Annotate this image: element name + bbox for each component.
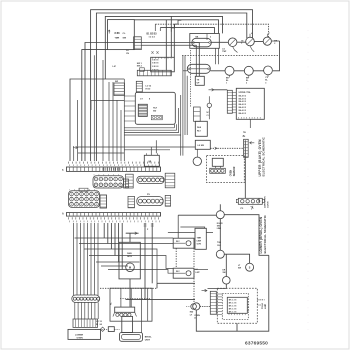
label — [147, 194, 150, 196]
oven cavity box — [190, 34, 220, 49]
wire bundle left — [74, 55, 125, 161]
label A — [62, 213, 64, 216]
label marks — [196, 269, 201, 274]
heater H5 — [244, 66, 253, 75]
switch S2 — [216, 250, 224, 258]
wire — [211, 41, 279, 42]
label P2 — [243, 136, 246, 138]
junction box — [68, 329, 101, 339]
svg-text:OVEN: OVEN — [231, 169, 233, 176]
svg-text:TMR: TMR — [115, 37, 120, 39]
wire stubs relay — [124, 96, 135, 121]
arrow — [202, 289, 208, 292]
svg-text:TMR: TMR — [197, 238, 202, 240]
pin strip — [126, 174, 134, 188]
wire — [151, 140, 156, 155]
svg-text:8 8 8 8: 8 8 8 8 — [152, 59, 159, 61]
arrow marker — [73, 146, 78, 149]
heater H6 — [264, 66, 273, 75]
connector strip P2 — [244, 139, 249, 157]
label rotated sensor — [231, 166, 237, 176]
label block dark — [100, 321, 103, 326]
lower oven box — [110, 288, 152, 321]
wire — [249, 119, 251, 128]
svg-text:FAN: FAN — [127, 252, 132, 255]
label LO — [222, 49, 227, 54]
svg-text:OVN: OVN — [197, 244, 202, 246]
wire dashed drop — [189, 50, 191, 107]
label — [243, 132, 246, 137]
svg-text:N 1: N 1 — [207, 112, 210, 114]
svg-text:DLB: DLB — [197, 127, 202, 129]
wire stair 7 — [126, 232, 139, 234]
label — [226, 77, 229, 84]
label light — [190, 312, 194, 317]
svg-text:LWR OVEN: LWR OVEN — [265, 196, 267, 208]
connector strip P4 — [210, 291, 216, 314]
wire left feed B — [82, 50, 108, 161]
label small — [207, 112, 210, 117]
pin strip 3 — [128, 196, 135, 207]
relay K1 — [173, 238, 194, 248]
switch S4 — [223, 277, 231, 285]
wire stair 5 — [118, 223, 120, 262]
wire top feed L1 — [91, 10, 253, 161]
wire — [219, 204, 221, 210]
knot marks — [152, 52, 159, 54]
wire risers — [174, 56, 187, 156]
svg-text:RLY: RLY — [197, 131, 201, 133]
label — [126, 49, 129, 55]
svg-text:BA 4 8 2: BA 4 8 2 — [239, 100, 246, 103]
wire top feed inner — [160, 28, 214, 34]
wire long — [168, 231, 195, 233]
wire dashed 3 — [100, 287, 157, 289]
svg-text:SW: SW — [223, 272, 226, 274]
wire stair L7 — [108, 270, 173, 274]
svg-text:SW: SW — [238, 268, 241, 270]
svg-text:1 2 3 4: 1 2 3 4 — [149, 35, 156, 38]
label — [265, 77, 268, 84]
wire stair L2 — [79, 243, 173, 245]
svg-text:BK 1 2 8: BK 1 2 8 — [229, 300, 236, 302]
pilot lamp — [207, 96, 211, 119]
wire drop — [155, 24, 160, 31]
wire vertical drop 2 — [170, 16, 172, 57]
label L2 — [96, 321, 99, 326]
control outline — [217, 288, 257, 323]
wire — [129, 233, 131, 242]
wire dashed — [175, 248, 177, 268]
title upper schematic — [258, 136, 266, 176]
wire stair L1 — [75, 237, 174, 239]
svg-text:SW: SW — [115, 81, 118, 83]
terminal strip TB2 — [67, 213, 161, 217]
svg-text:BA 4 8 2: BA 4 8 2 — [239, 106, 246, 109]
wire — [141, 288, 143, 332]
wire stair 3 — [110, 223, 112, 249]
arrow — [209, 89, 215, 92]
label — [246, 77, 249, 84]
wire right edge — [273, 41, 280, 71]
svg-text:2: 2 — [274, 43, 275, 45]
wire left feed A — [85, 43, 199, 162]
heater H1 — [228, 38, 237, 53]
svg-text:BK 1 2 8: BK 1 2 8 — [229, 303, 236, 305]
svg-text:UPPER CTRL: UPPER CTRL — [239, 92, 252, 94]
wire stair L5 — [96, 261, 140, 263]
connector grid — [134, 37, 142, 50]
svg-text:3: 3 — [265, 82, 266, 84]
svg-text:LWR: LWR — [217, 228, 222, 230]
label — [62, 168, 64, 171]
wire jog — [91, 101, 124, 111]
wire left feed C — [70, 79, 124, 161]
wire — [225, 254, 227, 276]
switch bank — [151, 57, 175, 72]
connector plug P6 — [69, 188, 100, 207]
svg-text:1: 1 — [241, 43, 242, 45]
latch box — [212, 158, 223, 168]
label element — [145, 337, 152, 342]
wire long dashed — [182, 55, 280, 57]
label block — [137, 63, 145, 72]
wire stair L4 — [89, 256, 173, 269]
wire — [208, 284, 227, 288]
pin header — [136, 81, 142, 92]
wire jog 2 — [78, 152, 124, 154]
clock U1 — [108, 20, 135, 50]
wire vertical drop — [165, 20, 167, 71]
wire stair L8 — [194, 269, 208, 271]
svg-text:BA 4 8 2: BA 4 8 2 — [239, 109, 246, 112]
indicator light DS1 — [186, 304, 196, 310]
switch S1 — [178, 211, 224, 219]
heater H3 — [263, 33, 271, 46]
wire — [147, 288, 149, 321]
wire mid drop 2 — [151, 223, 153, 283]
wire — [183, 70, 187, 72]
wire bundle — [75, 302, 98, 319]
wire labels row — [69, 217, 160, 222]
terminal strip TB4 — [137, 70, 171, 76]
wire bundle lower — [74, 223, 99, 295]
wire long mid 2 — [124, 149, 170, 151]
wire — [224, 254, 249, 263]
wire — [214, 89, 227, 91]
wire drop K1 — [177, 215, 179, 238]
terminal block TB3 — [210, 168, 226, 173]
interlock block — [114, 81, 125, 96]
wire jog timer — [180, 227, 204, 228]
svg-text:8 8 8 8: 8 8 8 8 — [152, 63, 159, 65]
fuse F1 — [144, 224, 154, 231]
svg-text:1: 1 — [226, 83, 227, 85]
label fan — [127, 252, 132, 258]
thermostat box — [195, 76, 204, 85]
connector block P7 — [100, 195, 107, 208]
connector pill P10 — [72, 295, 100, 302]
motor M1 — [126, 263, 135, 272]
oven control board U2 — [227, 297, 249, 315]
svg-text:SENSOR: SENSOR — [234, 166, 236, 176]
label BR — [274, 40, 277, 45]
connector pill P8 — [137, 176, 164, 183]
svg-text:ELECTRICAL SCHEMATIC: ELECTRICAL SCHEMATIC — [262, 136, 266, 176]
connector plug P5 — [93, 174, 124, 188]
wire bottom loop — [196, 255, 268, 331]
lamp DS2 — [193, 303, 200, 310]
svg-text:BK 1 2 8: BK 1 2 8 — [229, 309, 236, 311]
wire stub dashed — [257, 300, 264, 305]
wire stair 1 — [103, 223, 105, 238]
broil element E1 — [120, 333, 143, 342]
wire staircase — [171, 20, 181, 31]
pin strip 4 — [165, 195, 170, 206]
arrow — [215, 147, 217, 150]
svg-text:LO 12: LO 12 — [146, 86, 152, 88]
svg-text:TO L1: TO L1 — [262, 302, 264, 309]
part number — [245, 341, 268, 347]
wire — [129, 279, 131, 307]
heater H4 — [225, 66, 234, 75]
svg-text:CLK: CLK — [217, 245, 222, 247]
label — [223, 270, 226, 275]
label rotated — [265, 196, 270, 208]
wire dashed 2 — [193, 248, 195, 303]
label — [238, 265, 241, 270]
svg-text:LOWER: LOWER — [75, 334, 84, 336]
wire stair 4 — [114, 223, 116, 256]
svg-text:M: M — [129, 266, 131, 270]
wire — [157, 283, 195, 288]
wire stub — [206, 231, 213, 233]
label P3 — [241, 208, 244, 210]
wire feed A2 — [141, 45, 196, 76]
wire dashed inner — [120, 297, 150, 299]
label rotated — [262, 302, 267, 309]
wire — [236, 323, 238, 331]
wire top feed dashed — [155, 24, 268, 38]
connector P12 — [113, 307, 137, 316]
svg-text:MTR: MTR — [127, 256, 132, 258]
dashed enclosure — [207, 156, 245, 183]
relay board U4 — [135, 92, 175, 124]
svg-text:LIC: LIC — [113, 66, 117, 68]
control inner — [222, 293, 248, 319]
title lower schematic — [259, 214, 267, 253]
svg-text:CONN: CONN — [268, 201, 270, 208]
arrow — [126, 232, 137, 235]
wire — [258, 198, 260, 202]
wire pair drop — [215, 48, 218, 64]
svg-text:C 2: C 2 — [207, 115, 210, 117]
svg-text:B1 B2 B3: B1 B2 B3 — [147, 33, 158, 35]
wire mid drop 1 — [144, 223, 146, 300]
wire — [121, 288, 131, 307]
svg-text:UNIT: UNIT — [145, 340, 151, 342]
wire top feed L3 — [105, 16, 222, 79]
label H1 — [241, 40, 243, 45]
svg-text:8 8 8 8: 8 8 8 8 — [152, 69, 159, 71]
label — [217, 223, 223, 230]
wire stair 2 — [107, 223, 109, 244]
heater H2 — [246, 32, 255, 52]
wire top feed N — [134, 20, 218, 34]
label — [146, 86, 152, 91]
svg-text:LK SW: LK SW — [198, 145, 205, 147]
label LIC — [113, 66, 117, 68]
component box 2 — [195, 140, 210, 149]
wire long mid — [78, 146, 195, 148]
wire stair L6 — [101, 265, 128, 267]
wire stubs circles — [230, 75, 269, 78]
svg-text:BK 1 2 8: BK 1 2 8 — [229, 306, 236, 308]
wire vertical drop 3 — [173, 24, 175, 57]
wire bundle mid — [124, 128, 180, 135]
arrow — [251, 206, 254, 210]
wire right riser — [224, 215, 268, 256]
wire stair L3 — [84, 249, 157, 283]
wire — [219, 219, 221, 251]
wire stubs — [232, 93, 236, 113]
terminal strip TB1 — [67, 167, 161, 171]
box timer — [195, 228, 206, 249]
arrow — [250, 142, 255, 145]
connector strip P1 — [227, 90, 232, 113]
wire stubs — [216, 294, 222, 314]
label — [217, 242, 222, 247]
broil element E3 — [187, 64, 210, 73]
element housing — [122, 316, 133, 332]
svg-text:BA 4 8 2: BA 4 8 2 — [239, 97, 246, 100]
svg-text:BA 4 8 2: BA 4 8 2 — [239, 103, 246, 106]
wire top feed L2 — [96, 13, 246, 161]
svg-text:BA 4 8 2: BA 4 8 2 — [239, 94, 246, 97]
svg-text:1: 1 — [269, 33, 270, 35]
wire dashed — [200, 305, 210, 307]
svg-text:LWR: LWR — [197, 241, 202, 243]
svg-text:BK 1 2 8: BK 1 2 8 — [229, 312, 236, 314]
svg-text:IND: IND — [190, 312, 194, 314]
svg-text:2: 2 — [246, 83, 247, 85]
label — [194, 315, 200, 320]
fuse F2 — [95, 327, 120, 332]
pin strip 2 — [165, 173, 175, 188]
wire stair 6 — [121, 223, 123, 270]
connector block P11 — [73, 319, 98, 327]
svg-text:63769550: 63769550 — [245, 341, 268, 347]
switch S3 — [246, 263, 254, 271]
connector P3 — [236, 198, 264, 204]
oven control board U3 — [236, 88, 264, 119]
wire — [244, 140, 246, 198]
svg-text:2: 2 — [210, 36, 211, 38]
svg-text:BROIL: BROIL — [145, 337, 152, 339]
connector pill P9 — [137, 197, 163, 206]
component box — [195, 121, 207, 136]
svg-text:8:88: 8:88 — [115, 32, 121, 35]
connector block P13 — [124, 179, 129, 188]
svg-text:8 8 8 8: 8 8 8 8 — [152, 66, 159, 68]
limiter — [100, 327, 104, 331]
label rotated small — [111, 302, 113, 305]
label row — [147, 33, 158, 38]
box fan — [119, 242, 140, 279]
bake element E2 — [192, 38, 212, 47]
relay K2 — [173, 268, 194, 278]
svg-text:RLY: RLY — [153, 108, 157, 110]
aux relay box — [194, 107, 201, 121]
svg-text:LINE: LINE — [265, 303, 267, 309]
wire — [126, 299, 196, 301]
svg-text:ELECTRICAL SCHEMATIC: ELECTRICAL SCHEMATIC — [263, 214, 267, 253]
wire — [210, 70, 263, 72]
svg-text:BA 4 8 2: BA 4 8 2 — [239, 112, 246, 115]
lock motor box — [144, 153, 159, 166]
wire labels row — [69, 162, 160, 166]
clock motor M2 — [193, 149, 201, 165]
svg-text:A: A — [62, 213, 64, 216]
wire dashed — [210, 147, 243, 149]
svg-text:OVEN: OVEN — [77, 337, 84, 339]
